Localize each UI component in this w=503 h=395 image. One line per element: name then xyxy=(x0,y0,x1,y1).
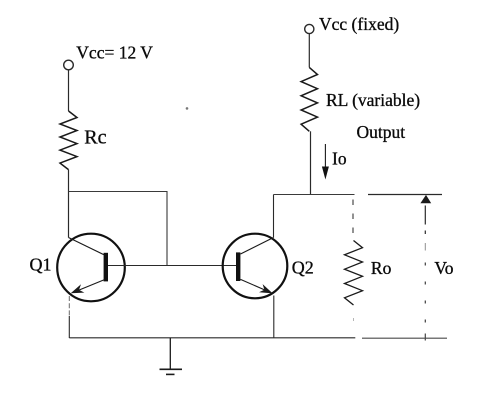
wire Ro dashed top xyxy=(352,200,354,241)
svg-text:Ro: Ro xyxy=(371,258,392,278)
wire base link Q1-Q2 xyxy=(108,265,236,267)
wire rail to Vo arrow xyxy=(368,194,442,196)
wire Ro dashed bottom xyxy=(353,318,355,321)
wire Rc down to Q1 collector xyxy=(68,170,70,238)
svg-text:Io: Io xyxy=(332,149,347,169)
resistor Rc xyxy=(60,111,77,170)
svg-text:Q2: Q2 xyxy=(292,258,314,278)
wire Q2 collector up to output rail xyxy=(273,195,275,238)
wire Vcc to Rc xyxy=(68,70,70,111)
svg-text:Q1: Q1 xyxy=(30,255,52,275)
svg-text:Vcc= 12 V: Vcc= 12 V xyxy=(76,42,153,62)
svg-text:Vcc (fixed): Vcc (fixed) xyxy=(319,14,399,34)
speck (scan artifact) xyxy=(186,107,189,110)
svg-text:RL (variable): RL (variable) xyxy=(326,90,420,110)
wire Q1 emitter to ground rail (lower) xyxy=(68,316,70,338)
resistor Ro xyxy=(345,241,363,306)
terminal Vcc right xyxy=(305,24,314,33)
wire collector-base tie (top rail left) xyxy=(69,192,168,266)
ground rail xyxy=(69,337,355,339)
svg-text:Vo: Vo xyxy=(434,258,453,278)
wire Vo dash-dot xyxy=(424,206,426,341)
wire output rail xyxy=(274,194,355,196)
wire Vcc to RL xyxy=(308,34,310,68)
terminal Vcc left xyxy=(64,60,74,70)
arrow Vo xyxy=(420,195,431,203)
ground xyxy=(160,338,183,375)
svg-text:Rc: Rc xyxy=(84,127,106,149)
transistor Q2 xyxy=(223,234,288,299)
wire RL down to output rail xyxy=(310,131,312,194)
svg-text:Output: Output xyxy=(357,122,406,142)
transistor Q1 xyxy=(57,234,125,302)
wire ground rail right segment xyxy=(362,337,447,339)
arrow Io xyxy=(322,144,329,180)
wire Q1 emitter to ground rail xyxy=(68,296,70,316)
resistor RL xyxy=(301,67,317,131)
wire Q2 emitter down to ground rail xyxy=(273,296,275,339)
